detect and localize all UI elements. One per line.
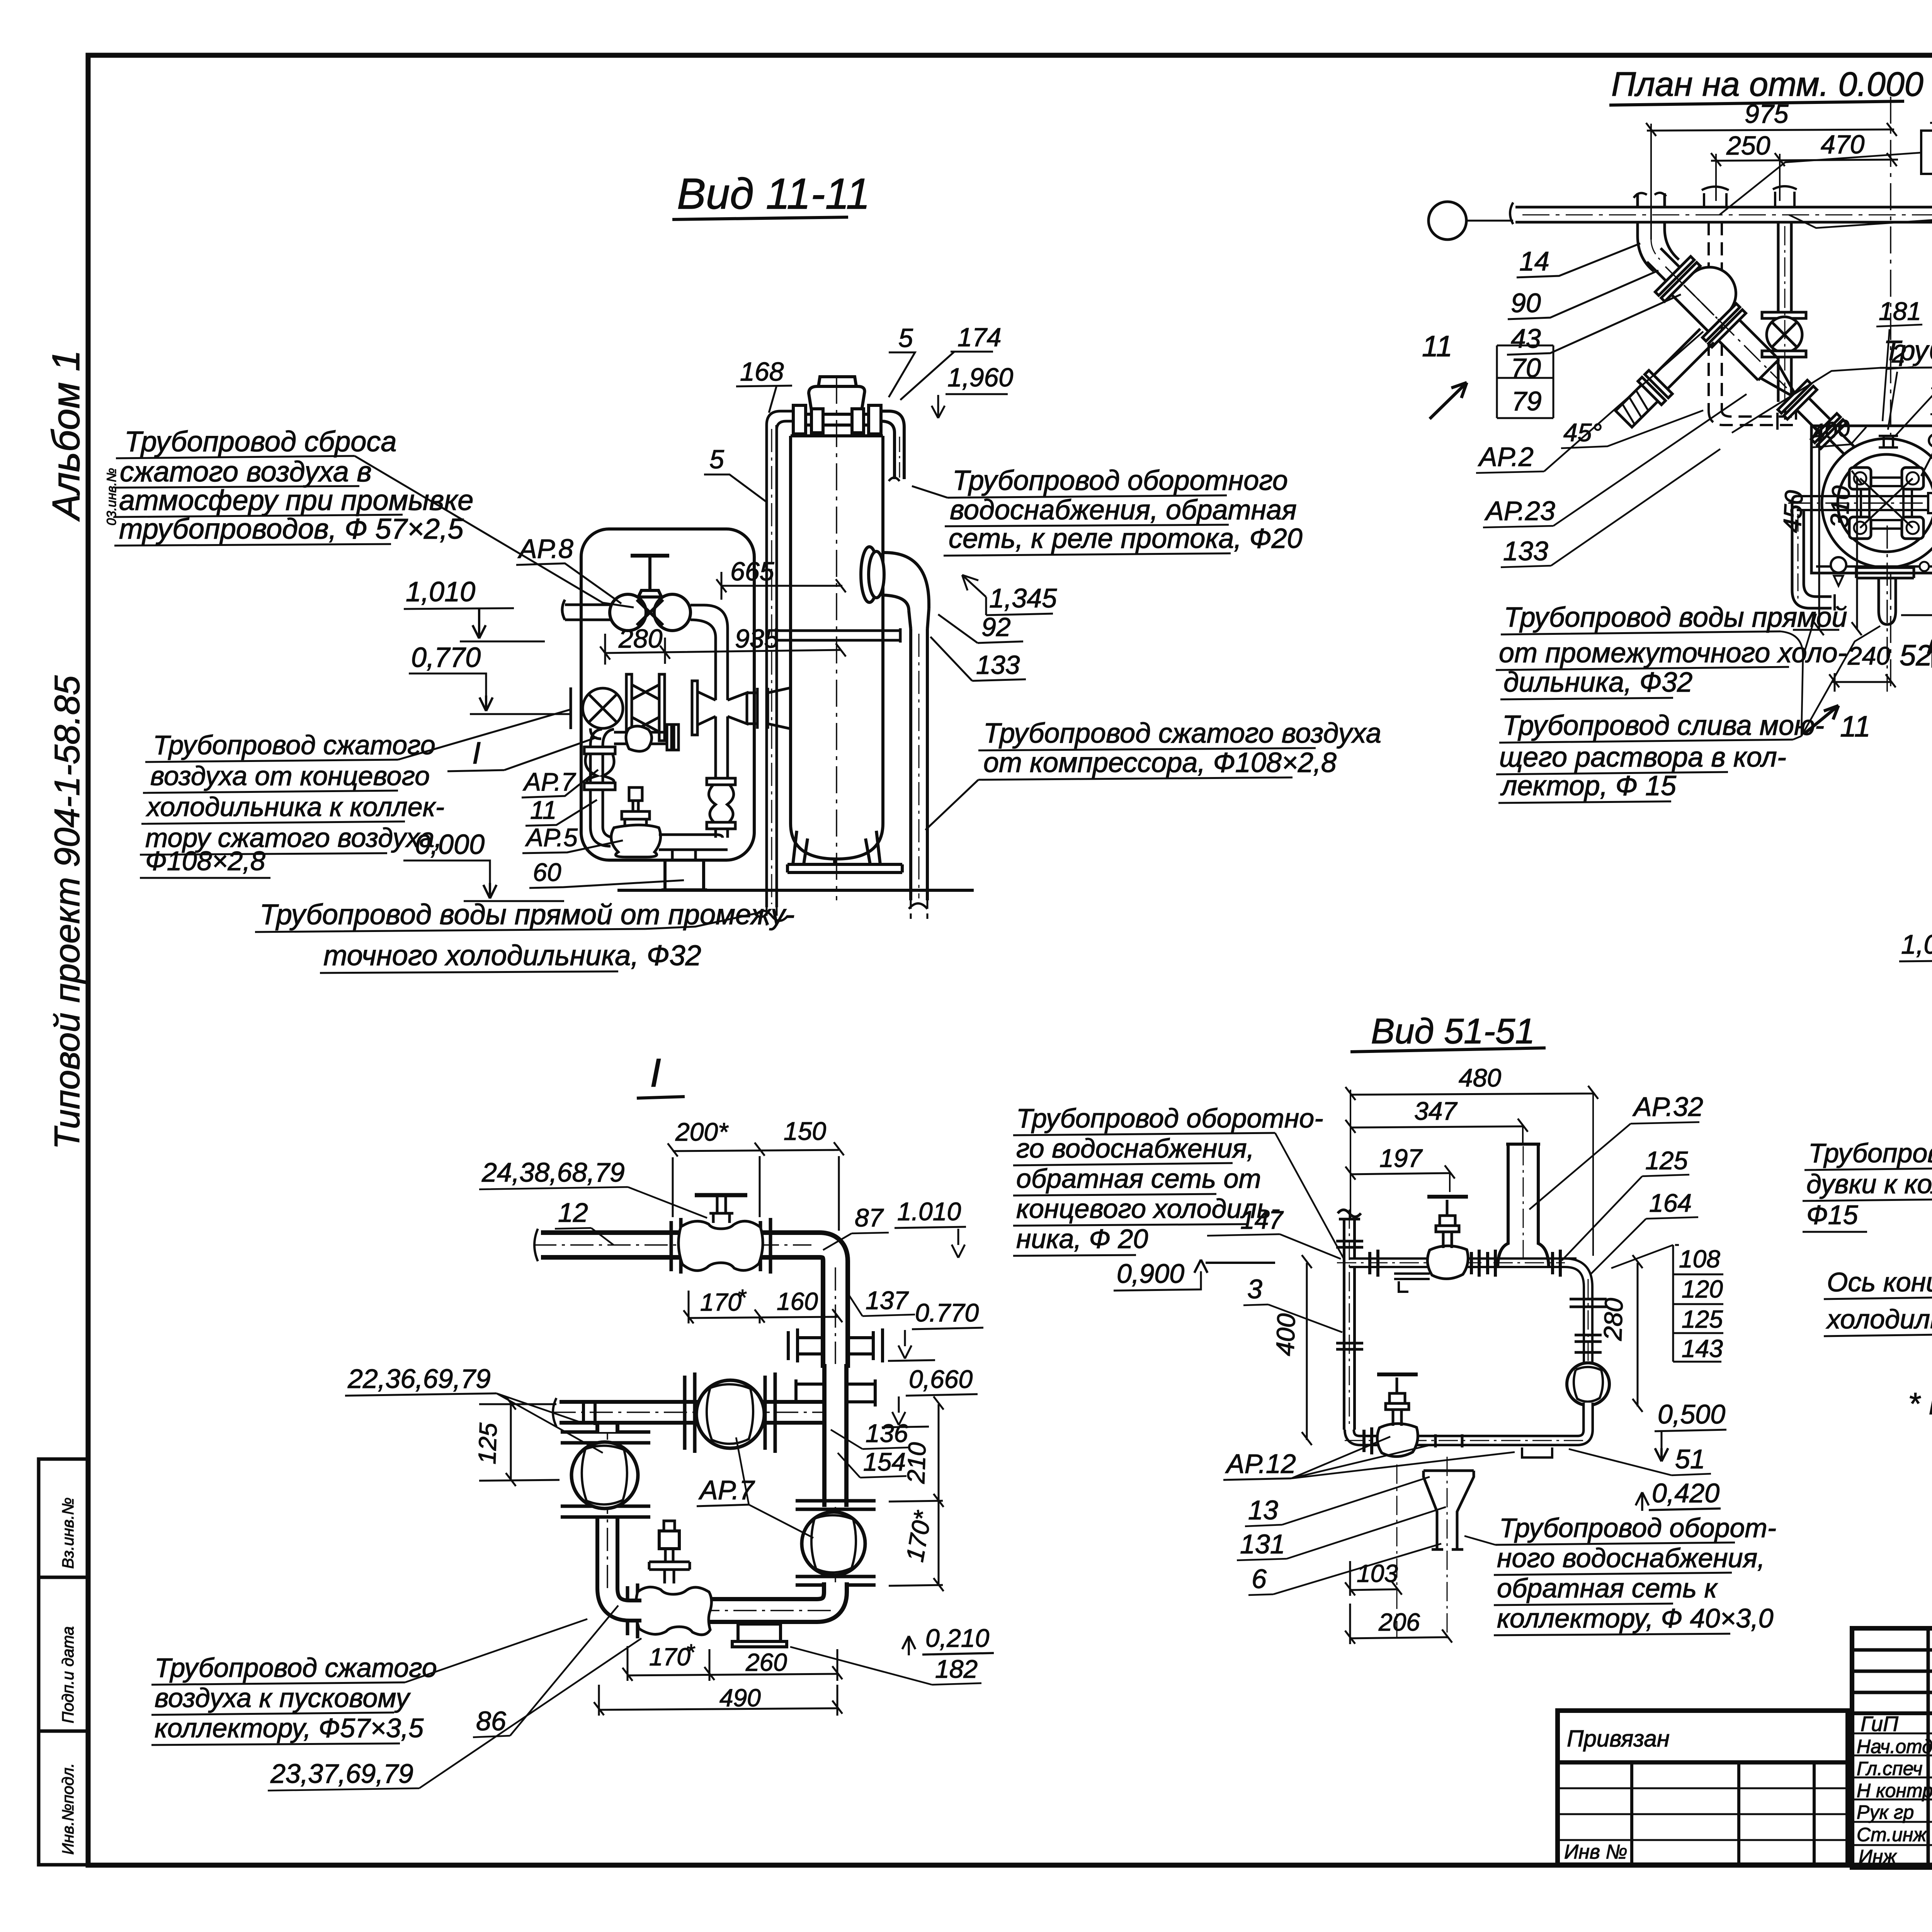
svg-text:1.010: 1.010: [897, 1197, 961, 1226]
bail handle: [809, 386, 865, 410]
svg-text:щего раствора в кол-: щего раствора в кол-: [1499, 742, 1786, 773]
svg-text:холодильника: холодильника: [1826, 1304, 1932, 1334]
svg-text:0,900: 0,900: [1117, 1259, 1184, 1289]
flange pair top run: [1370, 1250, 1378, 1277]
outlet to elbow down: [690, 605, 728, 692]
dome and chimney: [1498, 1144, 1549, 1268]
left labels: [1806, 1138, 1932, 1230]
svg-text:1,000: 1,000: [1901, 929, 1932, 959]
pressure gauge: [1831, 557, 1846, 573]
svg-text:133: 133: [976, 650, 1020, 680]
svg-text:Трубопровод про-: Трубопровод про-: [1808, 1138, 1932, 1168]
labels AR7 11 AR5 60: [522, 767, 578, 886]
cross fitting 2: [796, 1379, 875, 1406]
svg-text:1,010: 1,010: [406, 577, 475, 607]
regulator AR5 at bottom: [611, 787, 728, 860]
svg-text:Трубопровод воды прямой от про: Трубопровод воды прямой от промежу-: [260, 898, 795, 930]
narrow top rows: [1852, 1648, 1932, 1652]
pipe seg: [1647, 248, 1680, 281]
right label block: [1884, 90, 1932, 413]
privyazan table: [1558, 1711, 1848, 1865]
leader to AR8: [355, 456, 634, 607]
svg-text:от промежуточного холо-: от промежуточного холо-: [1499, 638, 1847, 668]
branch down-left from manifold: [584, 728, 615, 846]
svg-text:133: 133: [1503, 536, 1548, 566]
svg-text:Н контр: Н контр: [1857, 1780, 1932, 1801]
svg-text:I: I: [650, 1051, 661, 1095]
svg-text:5: 5: [709, 445, 724, 474]
svg-text:11: 11: [1422, 330, 1452, 363]
svg-text:обратная сеть от: обратная сеть от: [1016, 1163, 1261, 1194]
svg-text:0,660: 0,660: [909, 1365, 973, 1393]
svg-text:го водоснабжения,: го водоснабжения,: [1016, 1133, 1254, 1163]
svg-text:Ф15: Ф15: [1806, 1200, 1859, 1230]
right vertical down to ball valve: [822, 1364, 849, 1507]
svg-text:11: 11: [1840, 710, 1871, 743]
small horizontal run with valve: [614, 724, 679, 751]
datum circle: [1429, 202, 1466, 240]
skid pedestal: [662, 860, 707, 890]
svg-text:Трубопровод слива мою-: Трубопровод слива мою-: [1502, 710, 1824, 741]
svg-text:450: 450: [1777, 490, 1808, 534]
label: szhaty vozdukh (6 lines): [145, 730, 444, 876]
svg-text:Рук гр: Рук гр: [1857, 1801, 1914, 1823]
svg-text:холодильника к коллек-: холодильника к коллек-: [146, 792, 444, 822]
extension lines: [1651, 124, 1780, 240]
svg-text:Трубопровод сжатого: Трубопровод сжатого: [155, 1653, 437, 1683]
title block texts: [1857, 1639, 1932, 1913]
tank bottom dome: [791, 823, 883, 859]
svg-text:Вид 11-11: Вид 11-11: [677, 170, 870, 218]
svg-text:250: 250: [1726, 131, 1770, 160]
svg-text:181: 181: [1879, 297, 1921, 325]
svg-text:120: 120: [1682, 1275, 1723, 1303]
main collector pipe: [1510, 202, 1932, 225]
svg-text:Трубопровод сжатого воздуха: Трубопровод сжатого воздуха: [983, 718, 1381, 749]
svg-text:168: 168: [740, 357, 784, 386]
svg-text:240: 240: [1847, 641, 1890, 670]
left flange: [571, 687, 581, 729]
svg-text:АР.5: АР.5: [525, 823, 578, 852]
svg-text:125: 125: [1682, 1305, 1723, 1333]
long centerline: [1890, 97, 1891, 692]
svg-text:12: 12: [558, 1197, 588, 1228]
ball valve right: [1567, 1363, 1609, 1405]
boxed stack 108 120 125 143: [1679, 1245, 1723, 1362]
svg-text:0.770: 0.770: [915, 1298, 979, 1327]
svg-text:Трубопровод сброса: Трубопровод сброса: [124, 425, 397, 457]
label: oborotnoe vodosnab (3 lines): [949, 465, 1303, 554]
svg-text:План на отм. 0.000: План на отм. 0.000: [1611, 65, 1923, 103]
svg-text:1,345: 1,345: [989, 583, 1057, 613]
mid cross manifold: [571, 674, 791, 778]
title block table: [1852, 1628, 1932, 1867]
svg-text:0,770: 0,770: [411, 642, 481, 673]
support band 935 level: [776, 628, 900, 643]
svg-text:Трубопровод оборотно-: Трубопровод оборотно-: [1016, 1103, 1323, 1133]
svg-text:Подп.и дата: Подп.и дата: [59, 1626, 77, 1723]
dome valve: [1672, 257, 1747, 332]
flange plates: [1655, 257, 1694, 296]
title underline: [672, 217, 848, 219]
bottom valve body: [636, 1587, 712, 1634]
svg-text:79: 79: [1512, 386, 1542, 416]
flange pair right of dome: [1553, 1250, 1560, 1277]
riser 3 with valve: [1762, 186, 1806, 402]
svg-text:92: 92: [981, 612, 1011, 642]
svg-text:Ф108×2,8: Ф108×2,8: [145, 846, 265, 876]
elevation 0000: [403, 829, 564, 901]
svg-text:125: 125: [473, 1422, 502, 1465]
svg-text:400: 400: [1810, 415, 1852, 446]
svg-text:51: 51: [1675, 1444, 1705, 1474]
svg-text:Гл.спеч: Гл.спеч: [1857, 1758, 1922, 1779]
svg-text:22,36,69,79: 22,36,69,79: [347, 1364, 491, 1394]
svg-text:сжатого воздуха в: сжатого воздуха в: [120, 456, 372, 488]
cooler manifold lobes: [1849, 468, 1923, 539]
svg-text:14: 14: [1519, 246, 1549, 276]
svg-text:470: 470: [1821, 130, 1865, 159]
top valve flanges: [671, 1218, 770, 1274]
left stack labels 14 90 43 70 79: [1511, 246, 1549, 416]
svg-text:24,38,68,79: 24,38,68,79: [481, 1157, 625, 1187]
svg-text:Трубопровод оборотного: Трубопровод оборотного: [952, 465, 1288, 496]
svg-text:воздуха от концевого: воздуха от концевого: [150, 761, 430, 791]
svg-text:480: 480: [1459, 1063, 1501, 1092]
svg-text:280: 280: [618, 624, 663, 653]
svg-text:125: 125: [1645, 1146, 1688, 1175]
crossed valve circle: [583, 688, 623, 728]
svg-text:170*: 170*: [901, 1508, 937, 1564]
label sliv: [1499, 710, 1824, 801]
svg-text:60: 60: [533, 858, 561, 886]
svg-text:45°: 45°: [1563, 418, 1602, 447]
T with funnel: [1435, 1434, 1462, 1447]
label: sbros pipe (4 lines): [119, 425, 473, 545]
svg-text:90: 90: [1511, 288, 1541, 318]
bottom valve flanges: [628, 1583, 638, 1638]
flange pairs right of valve: [1471, 1250, 1495, 1277]
svg-text:108: 108: [1679, 1245, 1720, 1273]
diagonal strainer assembly: [1557, 228, 1881, 551]
svg-text:164: 164: [1649, 1189, 1692, 1217]
svg-text:Вид 51-51: Вид 51-51: [1371, 1012, 1535, 1051]
inlet pipe from left: [562, 600, 611, 620]
svg-text:170: 170: [649, 1643, 690, 1671]
svg-text:0,500: 0,500: [1658, 1399, 1725, 1429]
ball valve: [802, 1512, 865, 1575]
T stub left joins vertical: [583, 1400, 595, 1425]
equipment skid rounded outline: [581, 529, 754, 860]
svg-text:АР.23: АР.23: [1484, 496, 1555, 526]
svg-text:310: 310: [1825, 485, 1855, 529]
svg-text:665: 665: [730, 557, 774, 586]
top valve body: [679, 1221, 763, 1270]
mid run: [560, 1400, 822, 1425]
right bottom label: [1497, 1513, 1776, 1633]
horizontal pipe through cooler: [1797, 496, 1932, 510]
right cone to tank nozzle: [728, 693, 757, 724]
left elbow down from cooler pipe: [1792, 496, 1835, 611]
weld box mark: [1399, 1281, 1408, 1292]
box mark bottom: [1522, 1447, 1552, 1458]
svg-text:Инж: Инж: [1859, 1846, 1897, 1867]
tank vessel shell: [787, 436, 902, 872]
label voda pryamaya plan: [1499, 602, 1847, 698]
svg-text:197: 197: [1379, 1144, 1423, 1172]
couplings: [1336, 1241, 1363, 1349]
drain assembly: [1856, 568, 1914, 624]
svg-text:1,960: 1,960: [947, 363, 1013, 392]
left elbow up: [607, 1519, 641, 1611]
svg-text:347: 347: [1414, 1097, 1458, 1125]
svg-text:210: 210: [902, 1442, 931, 1485]
svg-text:174: 174: [957, 323, 1001, 352]
cap at top: [1338, 1210, 1361, 1219]
svg-text:Типовой проект 904-1-58.85: Типовой проект 904-1-58.85: [48, 675, 87, 1150]
valve AR8: [562, 556, 728, 692]
label: voda pryamaya (2 lines): [260, 898, 795, 971]
small fittings on centerline: [1879, 430, 1932, 451]
left sub-table verticals: [1927, 1628, 1930, 1867]
svg-text:АР.7: АР.7: [522, 767, 576, 796]
svg-text:43: 43: [1511, 323, 1541, 354]
svg-text:дильника, Ф32: дильника, Ф32: [1503, 667, 1692, 698]
svg-text:ного водоснабжения,: ного водоснабжения,: [1497, 1543, 1765, 1573]
label pusk (3 lines): [155, 1653, 437, 1743]
valve 1 top run: [1427, 1197, 1468, 1279]
svg-text:5: 5: [898, 323, 913, 353]
standpipe bottom break: [755, 911, 788, 921]
role rows: [1852, 1733, 1932, 1735]
svg-text:86: 86: [476, 1706, 506, 1736]
left pipe up to T: [595, 1414, 619, 1432]
svg-text:23,37,69,79: 23,37,69,79: [270, 1759, 413, 1789]
gooseneck outlet pipe: [861, 547, 929, 900]
top run: [1349, 1257, 1577, 1268]
branch (perpendicular, down-left in world): [1654, 329, 1714, 389]
svg-text:Нач.отд.: Нач.отд.: [1857, 1736, 1932, 1757]
cooler square frame: [1811, 426, 1932, 573]
svg-text:935: 935: [735, 624, 779, 653]
svg-text:Ось концевого: Ось концевого: [1827, 1267, 1932, 1297]
svg-text:Вз.инв.№: Вз.инв.№: [59, 1497, 77, 1569]
riser 1 elbow to diagonal: [1634, 193, 1679, 271]
mid flange on pipe: [1928, 493, 1932, 513]
svg-text:ГиП: ГиП: [1861, 1712, 1898, 1736]
flange plates: [626, 674, 632, 741]
cooler circles: [1822, 439, 1932, 568]
svg-text:143: 143: [1682, 1335, 1723, 1362]
flange plates above/below ball: [796, 1501, 876, 1585]
svg-text:*: *: [737, 1285, 747, 1310]
bottom valve stem/handwheel: [665, 1570, 674, 1583]
svg-text:131: 131: [1240, 1529, 1285, 1559]
svg-text:коллектору, Ф57×3,5: коллектору, Ф57×3,5: [155, 1713, 424, 1743]
tank legs: [793, 831, 880, 864]
cone: [1758, 359, 1803, 405]
svg-text:Трубопровод воды прямой: Трубопровод воды прямой: [1504, 602, 1847, 633]
vertical branch below manifold with bulb valve: [707, 778, 735, 838]
svg-text:Инв №: Инв №: [1564, 1841, 1628, 1863]
left stamp column: [39, 1459, 88, 1865]
svg-text:6: 6: [1252, 1564, 1267, 1594]
left vertical pipe: [1343, 1219, 1356, 1430]
svg-text:АР.32: АР.32: [1632, 1092, 1703, 1122]
tank top fittings: [793, 377, 904, 481]
svg-text:52: 52: [1900, 639, 1932, 672]
svg-text:атмосферу при промывке: атмосферу при промывке: [119, 484, 473, 516]
svg-text:точного холодильника, Ф32: точного холодильника, Ф32: [323, 939, 701, 971]
svg-text:490: 490: [719, 1684, 761, 1712]
riser 2 hidden dashed: [1709, 222, 1793, 425]
strainer cone body with branch: [1719, 320, 1779, 380]
svg-text:Инв.№подл.: Инв.№подл.: [59, 1763, 77, 1855]
svg-text:87: 87: [855, 1203, 884, 1232]
svg-text:лектор, Ф 15: лектор, Ф 15: [1500, 770, 1677, 801]
cones between plates: [632, 685, 659, 732]
svg-text:ника, Ф 20: ника, Ф 20: [1016, 1224, 1148, 1254]
svg-text:Привязан: Привязан: [1567, 1726, 1670, 1752]
top valve handle: [695, 1193, 747, 1197]
svg-text:концевого холодиль-: концевого холодиль-: [1016, 1194, 1280, 1224]
svg-text:Трубопровод сжатого: Трубопровод сжатого: [153, 730, 435, 760]
top pipe with elbow: [541, 1245, 835, 1368]
base pad: [732, 1624, 787, 1647]
svg-text:обратная сеть к: обратная сеть к: [1497, 1573, 1718, 1603]
svg-text:160: 160: [777, 1287, 818, 1315]
section arrow 11 bottom: [1804, 706, 1838, 734]
bottom elbow and run: [641, 1582, 835, 1611]
left big valve: [561, 1432, 650, 1517]
left label block: [1016, 1103, 1323, 1254]
svg-text:170: 170: [700, 1288, 742, 1316]
svg-text:* Размеры для справок..: * Размеры для справок..: [1908, 1386, 1932, 1421]
svg-text:206: 206: [1378, 1608, 1420, 1636]
flanges on right vertical: [1570, 1299, 1607, 1352]
svg-text:Трубопровод оборот-: Трубопровод оборот-: [1499, 1513, 1776, 1543]
svg-text:200*: 200*: [675, 1117, 729, 1146]
valve 2 bottom run: [1377, 1374, 1418, 1457]
svg-text:136: 136: [866, 1419, 908, 1447]
elevation 1010: [404, 577, 545, 641]
svg-text:400: 400: [1270, 1313, 1301, 1357]
svg-text:АР.12: АР.12: [1225, 1449, 1296, 1479]
svg-text:975: 975: [1745, 99, 1789, 129]
elevation 0770: [409, 642, 570, 714]
svg-text:182: 182: [935, 1655, 978, 1683]
label: ot kompressora (2 lines): [983, 718, 1381, 778]
svg-text:АР.8: АР.8: [517, 534, 573, 564]
svg-text:260: 260: [745, 1648, 787, 1676]
svg-text:дувки к коллектору,: дувки к коллектору,: [1806, 1169, 1932, 1199]
svg-text:Альбом 1: Альбом 1: [44, 350, 88, 522]
svg-text:280: 280: [1598, 1298, 1628, 1342]
svg-text:Трубопровод ручной продувки к: Трубопровод ручной продувки к коллектору…: [1884, 335, 1932, 366]
svg-text:154: 154: [863, 1447, 906, 1476]
svg-text:Ст.инж.: Ст.инж.: [1857, 1824, 1932, 1845]
svg-text:11: 11: [530, 796, 557, 824]
standpipe riser: [767, 411, 792, 907]
svg-text:сеть, к реле протока, Ф20: сеть, к реле протока, Ф20: [949, 523, 1303, 554]
bottom run: [1349, 1403, 1588, 1440]
svg-text:150: 150: [784, 1117, 826, 1145]
svg-text:воздуха к пусковому: воздуха к пусковому: [155, 1683, 411, 1713]
svg-text:3: 3: [1247, 1274, 1262, 1304]
cross fitting 1: [788, 1328, 883, 1362]
svg-text:коллектору, Ф 40×3,0: коллектору, Ф 40×3,0: [1497, 1603, 1774, 1633]
svg-text:*: *: [686, 1640, 696, 1665]
svg-text:137: 137: [866, 1286, 909, 1315]
tank centerline: [836, 377, 837, 900]
mid valve: [685, 1372, 775, 1453]
svg-text:от компрессора, Ф108×2,8: от компрессора, Ф108×2,8: [983, 747, 1337, 778]
right outlet elbow going down: [881, 411, 904, 479]
through vertical pipe: [716, 692, 728, 778]
svg-text:0,420: 0,420: [1652, 1478, 1719, 1508]
svg-text:I: I: [472, 736, 481, 770]
svg-text:0,210: 0,210: [925, 1624, 989, 1652]
right elbow down: [1565, 1263, 1588, 1430]
svg-text:водоснабжения, обратная: водоснабжения, обратная: [950, 495, 1297, 526]
svg-text:АР.2: АР.2: [1478, 442, 1534, 472]
ground baseline: [617, 889, 974, 892]
svg-text:трубопроводов, Ф 57×2,5: трубопроводов, Ф 57×2,5: [119, 513, 464, 545]
tank baseplate: [787, 864, 902, 872]
bottom section line with valve: [1816, 560, 1932, 573]
svg-text:13: 13: [1248, 1495, 1278, 1525]
